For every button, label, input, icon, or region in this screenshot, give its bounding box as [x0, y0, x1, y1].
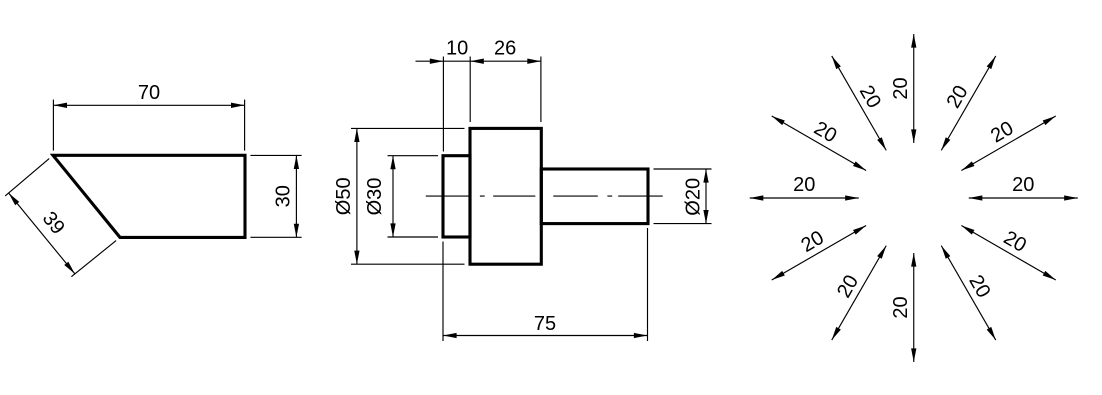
svg-text:20: 20 [855, 82, 885, 112]
radial dimension 20 at 300&#176;: double-headed arrow [941, 246, 996, 340]
dimension 26: arrow pointing right [527, 59, 541, 64]
dimension &#216;20: dimension line with arrows [705, 169, 707, 224]
svg-text:20: 20 [833, 271, 863, 301]
svg-text:Ø50: Ø50 [333, 177, 355, 215]
dimension &#216;30: extension line top [388, 155, 439, 157]
dimension &#216;50: dimension line with arrows [356, 128, 358, 264]
radial dimension 20 at 60&#176;: double-headed arrow [941, 56, 996, 150]
svg-text:20: 20 [964, 271, 994, 301]
dimension 39: extension line lower [71, 241, 116, 277]
svg-text:26: 26 [494, 38, 516, 60]
radial dimension 20 at 30&#176;: double-headed arrow [961, 116, 1055, 171]
dimension 70: extension line left [52, 100, 54, 151]
svg-text:30: 30 [272, 185, 294, 207]
dimension 75: extension line left [442, 242, 444, 342]
dimension 10/26: shared extension line [469, 57, 471, 123]
radial dimension 20 at 210&#176;: double-headed arrow [772, 226, 866, 281]
radial dimension 20 at 330&#176;: double-headed arrow [961, 226, 1055, 281]
svg-text:10: 10 [446, 38, 468, 60]
dimension 75: dimension line with arrows [443, 335, 648, 337]
dimension 10: extension line left [442, 57, 444, 152]
dimension 70: dimension line with arrows [53, 104, 244, 106]
radial dimension 20 at 180&#176;: double-headed arrow [750, 197, 859, 199]
dimension 26: arrow pointing left [470, 59, 484, 64]
svg-text:20: 20 [987, 117, 1017, 147]
part outline: flange body &#216;50 [470, 128, 541, 264]
dimension 30: dimension line with arrows [295, 155, 297, 237]
radial dimension 20 at 240&#176;: double-headed arrow [832, 246, 887, 340]
dimension 30: extension line top [250, 154, 301, 156]
svg-text:Ø20: Ø20 [682, 178, 704, 216]
radial dimension 20 at 120&#176;: double-headed arrow [832, 56, 887, 150]
radial dimension 20 at 150&#176;: double-headed arrow [772, 116, 866, 171]
dimension &#216;20: extension line bottom [654, 223, 712, 225]
shaft centre line [426, 195, 663, 197]
dimension 39: dimension line with arrows [9, 193, 75, 274]
dimension 30: extension line bottom [250, 236, 301, 238]
radial dimension 20 at 0&#176;: double-headed arrow [969, 197, 1078, 199]
dimension 39: extension line upper [5, 159, 49, 196]
dimension &#216;20: extension line top [654, 168, 712, 170]
svg-text:20: 20 [943, 82, 973, 112]
dimension 26: extension line right [540, 57, 542, 123]
dimension &#216;50: extension line bottom [351, 263, 465, 265]
svg-text:20: 20 [793, 174, 815, 196]
svg-text:20: 20 [890, 296, 912, 318]
part outline: shaft end &#216;20 [541, 169, 648, 224]
svg-text:20: 20 [890, 77, 912, 99]
dimension &#216;30: extension line bottom [388, 236, 439, 238]
dimension 10: outside arrow pointing right [430, 59, 444, 64]
svg-text:Ø30: Ø30 [364, 178, 386, 216]
svg-text:75: 75 [534, 313, 556, 335]
dimension &#216;30: dimension line with arrows [392, 156, 394, 237]
radial dimension 20 at 90&#176;: double-headed arrow [913, 34, 915, 143]
svg-text:20: 20 [1012, 174, 1034, 196]
svg-text:70: 70 [138, 82, 160, 104]
svg-text:20: 20 [797, 227, 827, 257]
radial dimension 20 at 270&#176;: double-headed arrow [913, 253, 915, 362]
dimension &#216;50: extension line top [351, 127, 465, 129]
part outline: wedge block [53, 155, 245, 237]
dimension 75: extension line right [647, 228, 649, 341]
part outline: collar step &#216;30 [443, 156, 470, 237]
dimension 10/26: dimension line [416, 60, 541, 62]
svg-text:20: 20 [810, 117, 840, 147]
svg-text:20: 20 [1000, 227, 1030, 257]
dimension 70: extension line right [244, 100, 246, 151]
